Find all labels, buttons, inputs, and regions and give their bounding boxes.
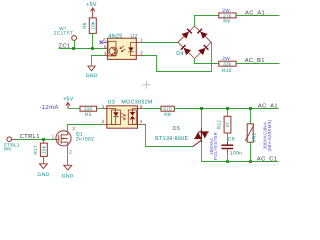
pin 2 stub: [103, 124, 107, 126]
diode D4d (bottom-right edge, points to right corner): [198, 45, 208, 55]
test point W7 ZC1TST: [54, 26, 77, 49]
svg-text:1: 1: [52, 134, 55, 139]
svg-text:2: 2: [140, 51, 143, 56]
svg-text:W6: W6: [4, 147, 12, 152]
wire Q1 drain to U3 pin2: [68, 125, 104, 132]
svg-text:470: 470: [163, 107, 172, 112]
svg-text:+5V: +5V: [86, 2, 97, 8]
svg-text:D4: D4: [176, 51, 184, 57]
junction bottom/C9: [226, 160, 229, 163]
svg-text:MOC3052M: MOC3052M: [121, 99, 153, 105]
ground (top): [86, 66, 98, 79]
pin 1 stub: [136, 42, 141, 44]
resistor R17: [33, 139, 47, 163]
wire bridge bottom corner to R10: [195, 59, 219, 64]
resistor R8: [161, 106, 174, 118]
pin 6 stub: [138, 108, 143, 110]
svg-text:R9: R9: [223, 19, 230, 25]
resistor R10: [219, 56, 236, 74]
svg-text:VR2: VR2: [251, 132, 256, 142]
junction rail/R12: [226, 107, 229, 110]
svg-text:BT139-800E: BT139-800E: [155, 136, 188, 142]
svg-text:-12mA: -12mA: [40, 104, 59, 111]
right triangle (points down): [201, 132, 208, 139]
wire R6 to ZC1 rail: [92, 33, 94, 49]
wire bridge top corner to R9: [195, 16, 219, 27]
power +5V (bottom): [63, 97, 74, 109]
svg-text:R12: R12: [216, 120, 221, 129]
pin 5 stub: [103, 48, 107, 50]
diode D4a (left-top edge, points to top corner): [182, 29, 192, 39]
junction bottom/VR2: [249, 160, 252, 163]
svg-text:1: 1: [102, 104, 105, 109]
svg-text:10k: 10k: [41, 145, 46, 154]
svg-text:+5V: +5V: [63, 97, 74, 103]
junction rail/VR2: [249, 107, 252, 110]
ground (Q1): [62, 165, 74, 179]
svg-text:27k: 27k: [223, 13, 232, 18]
upper bar: [198, 131, 208, 133]
svg-text:C9: C9: [228, 137, 235, 143]
ground (R17): [37, 164, 49, 178]
op-amp U3 MOC3052M optocoupler: [102, 99, 153, 128]
svg-text:3: 3: [72, 126, 75, 131]
resistor R12: [216, 109, 231, 145]
svg-text:330: 330: [84, 107, 93, 112]
pin 4 stub: [138, 124, 143, 126]
svg-text:2: 2: [102, 119, 105, 124]
svg-text:100n: 100n: [230, 151, 242, 157]
diode bridge D4: [176, 26, 211, 59]
svg-text:D5: D5: [173, 126, 181, 132]
svg-text:CTRL1: CTRL1: [20, 133, 40, 140]
wire U3 pin4 to triac gate: [142, 125, 192, 147]
pin 1 stub: [103, 108, 107, 110]
svg-text:2n7002: 2n7002: [76, 137, 95, 143]
power +5V (top): [86, 2, 97, 18]
wire R8 to AC_A1 rail: [174, 108, 278, 110]
transistor Q1 2n7002: [52, 126, 95, 155]
test point W6 CTRL1: [4, 137, 20, 152]
diode D4b (right-top edge, points to top corner): [197, 29, 207, 39]
svg-text:33k: 33k: [223, 62, 232, 67]
svg-text:R6: R6: [82, 22, 87, 29]
wire rail down to triac D5: [201, 109, 203, 129]
svg-text:R17: R17: [33, 145, 38, 154]
svg-text:4: 4: [140, 119, 143, 124]
svg-text:GND: GND: [86, 73, 98, 79]
LED inside U3: [107, 109, 121, 125]
photon arrows inside U3: [121, 113, 125, 119]
svg-text:AC_A1: AC_A1: [258, 103, 278, 110]
wire bottom rail to AC_C1: [201, 161, 278, 163]
svg-text:(50V-620RMS): (50V-620RMS): [267, 119, 272, 151]
svg-text:U3: U3: [108, 99, 116, 105]
svg-text:6: 6: [103, 38, 106, 43]
wire ZC1 rail: [59, 48, 104, 50]
gate diagonal: [192, 140, 201, 147]
svg-text:GND: GND: [37, 172, 49, 178]
resistor R9: [219, 8, 236, 25]
svg-text:AC_A1: AC_A1: [245, 10, 265, 17]
svg-text:R8: R8: [164, 112, 171, 118]
wire R9 to AC_A1: [236, 15, 279, 17]
svg-text:R5: R5: [85, 112, 92, 118]
svg-text:5: 5: [104, 44, 107, 49]
pin 4 stub: [103, 55, 107, 57]
LED inside U2: [128, 43, 136, 56]
op-amp U2 4N25 optocoupler: [100, 33, 144, 59]
junction CTRL1/R17: [42, 138, 45, 141]
transistor D5 triac BT139-800E: [155, 126, 209, 162]
wire CTRL1 to Q1 gate: [16, 139, 56, 141]
diode D4c (bottom-left edge, points to left corner): [181, 45, 191, 55]
resistor R6: [82, 18, 96, 34]
capacitor C9: [221, 137, 242, 162]
sheet origin cross: [143, 81, 151, 89]
svg-text:4: 4: [104, 51, 107, 56]
junction ZC1/R6: [91, 47, 94, 50]
svg-text:POLYESTER: POLYESTER: [213, 132, 218, 160]
pin 6 stub (no-connect): [103, 42, 107, 44]
svg-text:1: 1: [140, 37, 143, 42]
triac inside U3: [128, 109, 137, 125]
lower bar: [194, 138, 202, 140]
no-connect X on pin 6: [100, 41, 104, 45]
svg-text:GND: GND: [62, 173, 74, 179]
junction ZC1/testpoint: [72, 47, 75, 50]
wire U2 pin4 to ground: [92, 56, 104, 67]
svg-text:AC_B1: AC_B1: [245, 57, 265, 64]
svg-text:47: 47: [225, 122, 230, 128]
pin 2 stub: [136, 55, 141, 57]
left triangle (points up): [195, 132, 202, 139]
resistor R5: [68, 106, 103, 118]
svg-text:10k: 10k: [90, 21, 95, 30]
svg-text:2: 2: [69, 150, 72, 155]
wire R10 to AC_B1: [236, 63, 279, 65]
junction rail/triac: [200, 107, 203, 110]
photon arrows inside U2: [120, 46, 125, 52]
wire U2 pin2 to bridge right corner: [142, 42, 212, 71]
wire Q1 source to ground: [67, 146, 69, 165]
svg-text:ZC1TST: ZC1TST: [54, 31, 73, 36]
svg-text:AC_C1: AC_C1: [257, 156, 277, 163]
phototransistor inside U2: [108, 41, 117, 56]
wire U3 pin6 to R8: [142, 108, 161, 110]
wire U2 pin1 to bridge left corner: [142, 42, 179, 44]
varistor VR2: [245, 109, 256, 162]
svg-text:R10: R10: [222, 68, 232, 74]
svg-text:ZC1: ZC1: [59, 43, 71, 50]
